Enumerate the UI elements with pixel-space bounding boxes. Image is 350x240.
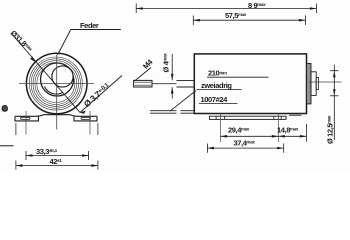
- dim 33,3 arrows: [26, 154, 89, 157]
- dim diameter 12,5 vertical line: [333, 65, 335, 141]
- stray cut line left edge: [0, 145, 14, 147]
- dim 29,4 arrows: [220, 135, 278, 138]
- stray mark left edge: [2, 105, 7, 111]
- solenoid body outline: [194, 54, 306, 114]
- arrowhead at slot for 3,7: [80, 111, 86, 114]
- dim 89 extension ticks: [135, 4, 137, 14]
- dim 29,4 line: [220, 135, 278, 137]
- dim 37,4 line: [207, 147, 283, 149]
- collar step B: [311, 72, 316, 96]
- collar step A: [307, 64, 312, 104]
- dim 42 arrows: [16, 164, 98, 167]
- thread minor lines: [135, 81, 152, 83]
- bracket front: left tab bottom: [15, 116, 39, 121]
- bracket front: top outline with strap: [15, 115, 97, 117]
- dim 42 extension ticks: [15, 123, 17, 170]
- label 1007#24 underline: [199, 102, 238, 104]
- arrowhead on circle edge for 31,8: [30, 56, 35, 62]
- plate slot ticks left: [215, 116, 217, 119]
- dim 57,5 arrows: [193, 19, 305, 22]
- side bracket plate: [210, 116, 287, 119]
- svg-text:29,4max: 29,4max: [228, 125, 250, 134]
- dim diameter4 line lower: [171, 87, 173, 98]
- label diameter 3,7: [82, 81, 112, 109]
- dim 89 line: [136, 8, 316, 10]
- wire label leader: [170, 91, 196, 112]
- dim diameter 12,5 arrows: [333, 71, 336, 96]
- svg-text:210mm: 210mm: [208, 68, 227, 77]
- label M4: [141, 57, 155, 71]
- dim 14,8 arrows: [278, 135, 306, 138]
- front view: coil winding rings: [29, 57, 82, 110]
- lead wires: [150, 111, 194, 114]
- dim 37,4 ticks: [206, 144, 208, 153]
- dim 37,4 arrows: [207, 147, 283, 150]
- dim diameter4 arrow lower: [171, 87, 174, 93]
- label diameter 31,8 max: [9, 29, 35, 55]
- dim 33,3 extension ticks: [25, 151, 27, 160]
- dim diameter 12,5 top tick: [330, 70, 339, 72]
- slot center extension left: [219, 113, 221, 142]
- label diameter 12,5 max: [326, 115, 335, 144]
- dimension leader 3,7 slot: [80, 76, 122, 113]
- axis centerline right: [309, 81, 342, 83]
- dim 14,8 right tick: [305, 124, 307, 142]
- svg-text:Ø31,8max: Ø31,8max: [9, 29, 35, 55]
- svg-text:1007#24: 1007#24: [201, 95, 229, 104]
- svg-text:42±1: 42±1: [50, 157, 63, 166]
- label 210mm underline: [207, 76, 269, 78]
- dim 57,5 extension ticks: [192, 16, 194, 26]
- dim 42 line: [16, 165, 98, 167]
- diameter 31,8 leader line through circle: [11, 33, 80, 113]
- axis centerline left: [152, 83, 177, 85]
- right slot centerline: [89, 111, 91, 135]
- svg-text:Ø 4max: Ø 4max: [162, 53, 171, 73]
- svg-text:zweiadrig: zweiadrig: [201, 81, 232, 90]
- plate slot ticks right: [273, 116, 275, 119]
- dim 33,3 line: [26, 155, 89, 157]
- svg-text:Ø 12,5max: Ø 12,5max: [326, 115, 335, 144]
- label zweiadrig underline: [197, 89, 242, 91]
- svg-text:M4: M4: [141, 57, 155, 71]
- collar step C: [316, 78, 318, 90]
- dim diameter4 line upper: [171, 54, 173, 80]
- dim 14,8 line: [278, 135, 306, 137]
- svg-text:57,5max: 57,5max: [225, 11, 247, 20]
- plunger rod top line: [177, 79, 195, 81]
- plunger rod bottom line: [177, 86, 195, 88]
- label diameter 4 max: [162, 53, 171, 73]
- bracket front: right tab bottom: [74, 116, 97, 121]
- dim diameter4 arrow upper: [171, 74, 174, 80]
- leader line for Feder label: [58, 30, 121, 56]
- svg-text:33,3±0,4: 33,3±0,4: [36, 147, 57, 156]
- left slot centerline: [25, 111, 27, 135]
- front view: vertical centerline: [56, 55, 58, 130]
- front view: bore circle: [41, 63, 74, 96]
- svg-text:14,8max: 14,8max: [277, 125, 299, 134]
- svg-text:37,4max: 37,4max: [234, 138, 256, 147]
- left slot hole: [21, 117, 31, 119]
- front view: plunger seat arc: [45, 87, 64, 95]
- dim 57,5 line: [193, 19, 305, 21]
- plunger thread section: [134, 80, 152, 87]
- front view: plunger circle: [52, 66, 73, 87]
- M4 leader line: [135, 68, 152, 82]
- front view: horizontal centerline: [19, 83, 94, 85]
- right slot hole: [81, 117, 91, 119]
- dim 89 arrows: [136, 7, 316, 10]
- slot center extension right: [277, 113, 279, 142]
- body bottom step line: [289, 114, 302, 116]
- front view: coil outer case circle: [26, 53, 87, 114]
- svg-text:Feder: Feder: [80, 21, 99, 30]
- dim diameter 12,5 bottom tick: [330, 95, 339, 97]
